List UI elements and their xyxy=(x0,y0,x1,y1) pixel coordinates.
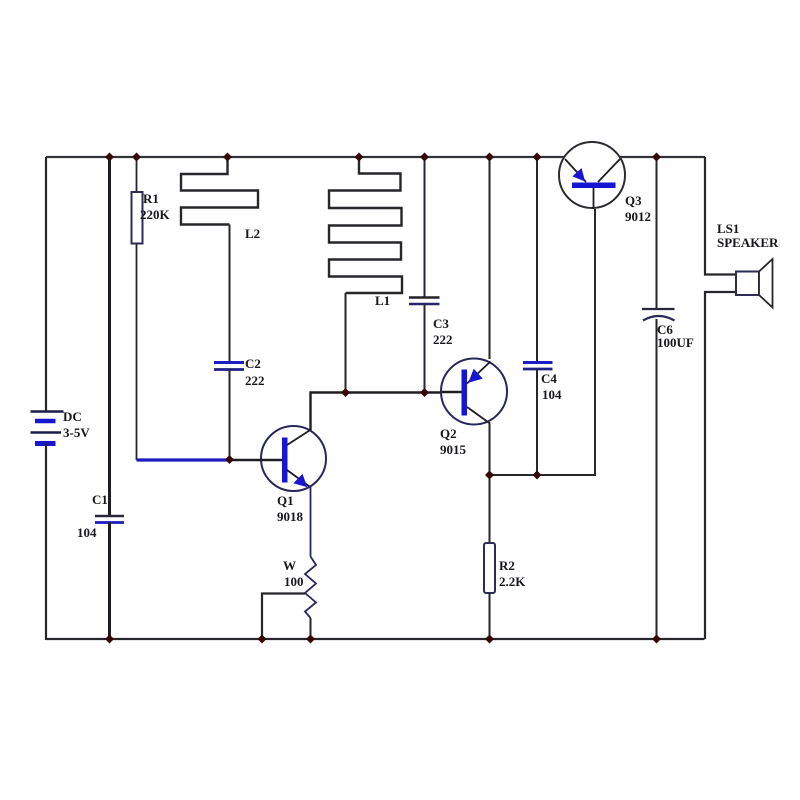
svg-text:W: W xyxy=(283,558,296,573)
svg-text:3-5V: 3-5V xyxy=(63,425,90,440)
svg-text:SPEAKER: SPEAKER xyxy=(717,235,779,250)
junction top rail at L2 xyxy=(223,153,232,162)
capacitor C4 104 xyxy=(523,363,562,403)
wire C6 top lead xyxy=(656,157,658,309)
wire bottom rail xyxy=(46,638,705,640)
svg-text:C3: C3 xyxy=(433,316,449,331)
svg-text:9012: 9012 xyxy=(625,209,651,224)
junction blue wire at C2 xyxy=(225,455,234,464)
svg-text:104: 104 xyxy=(77,525,97,540)
wire second vertical lower xyxy=(108,523,111,640)
svg-text:L2: L2 xyxy=(245,226,260,241)
svg-text:100: 100 xyxy=(284,574,304,589)
capacitor C4 top lead xyxy=(536,157,538,362)
svg-text:2.2K: 2.2K xyxy=(499,574,526,589)
wire C2 bottom lead xyxy=(229,370,231,461)
capacitor C3 222 xyxy=(409,298,453,348)
wire left rail upper (battery branch) xyxy=(45,157,47,412)
capacitor C1 xyxy=(77,492,124,540)
svg-text:C2: C2 xyxy=(245,356,261,371)
wire L1 bottom lead xyxy=(345,293,347,393)
junction top rail at C4 xyxy=(533,153,542,162)
svg-text:100UF: 100UF xyxy=(657,335,694,350)
speaker LS1 xyxy=(717,221,779,308)
wire L2 to C2 xyxy=(229,225,231,363)
junction bottom rail at W tap xyxy=(258,635,267,644)
junction bottom rail at W xyxy=(306,635,315,644)
svg-text:DC: DC xyxy=(63,409,82,424)
junction collector wire at L1 xyxy=(341,388,350,397)
svg-text:R2: R2 xyxy=(499,558,515,573)
potentiometer W 100 xyxy=(262,557,316,640)
resistor R1 220K xyxy=(132,191,171,244)
svg-text:104: 104 xyxy=(542,387,562,402)
wire Q1 emitter lead xyxy=(310,487,312,557)
resistor R2 top lead xyxy=(489,475,491,543)
inductor L2 xyxy=(181,157,260,241)
wire Q2 collector lead xyxy=(489,424,491,477)
junction collector wire at C3 xyxy=(420,388,429,397)
transistor Q3 9012 xyxy=(559,142,651,224)
junction top rail at C6 xyxy=(652,153,661,162)
wire right rail upper xyxy=(705,157,736,275)
transistor Q2 9015 xyxy=(440,359,507,458)
wire second vertical upper (to C1) xyxy=(108,157,111,516)
svg-text:R1: R1 xyxy=(143,191,159,206)
junction top rail at Q2 emitter xyxy=(485,153,494,162)
junction C4 at collector node xyxy=(533,471,542,480)
svg-text:222: 222 xyxy=(433,332,453,347)
svg-text:Q3: Q3 xyxy=(625,193,642,208)
wire blue base feed to Q1 xyxy=(137,458,230,461)
svg-text:222: 222 xyxy=(245,373,265,388)
wire top rail xyxy=(46,156,705,158)
junction bottom rail at R2 xyxy=(485,635,494,644)
junction bottom rail at C6 xyxy=(652,635,661,644)
junction bottom rail at second vertical xyxy=(105,635,114,644)
svg-text:C1: C1 xyxy=(92,492,108,507)
svg-text:Q1: Q1 xyxy=(277,493,294,508)
capacitor C3 top lead xyxy=(424,157,426,297)
junction top rail at L1 xyxy=(355,153,364,162)
wire Q1 collector to Q2 base xyxy=(311,393,444,431)
svg-text:9018: 9018 xyxy=(277,509,304,524)
resistor R2 2.2K xyxy=(484,543,526,593)
wire left rail lower xyxy=(45,443,47,640)
resistor R2 bottom lead xyxy=(489,593,491,639)
junction top rail at C3 xyxy=(420,153,429,162)
svg-text:LS1: LS1 xyxy=(717,221,739,236)
wire right rail lower xyxy=(705,292,736,639)
wire C4 bottom lead xyxy=(536,369,538,475)
junction top rail at R1 xyxy=(132,153,141,162)
svg-text:220K: 220K xyxy=(140,207,171,222)
battery DC 3-5V xyxy=(31,409,91,444)
inductor L1 xyxy=(329,157,402,308)
wire C6 bottom lead xyxy=(656,319,658,639)
wire Q2 collector node to Q3 base xyxy=(490,209,596,475)
svg-text:Q2: Q2 xyxy=(440,426,457,441)
transistor Q1 9018 xyxy=(229,426,327,524)
wire R1 top lead xyxy=(136,157,138,192)
capacitor C2 222 xyxy=(214,356,265,388)
svg-text:L1: L1 xyxy=(375,293,390,308)
wire Q2 emitter lead xyxy=(489,157,491,359)
junction Q2 collector node xyxy=(485,471,494,480)
wire R1 bottom lead xyxy=(136,244,138,461)
capacitor C6 100UF xyxy=(642,309,694,350)
svg-text:9015: 9015 xyxy=(440,442,467,457)
wire C3 bottom lead xyxy=(424,304,426,393)
svg-text:C4: C4 xyxy=(541,371,557,386)
junction top rail at second vertical xyxy=(105,153,114,162)
